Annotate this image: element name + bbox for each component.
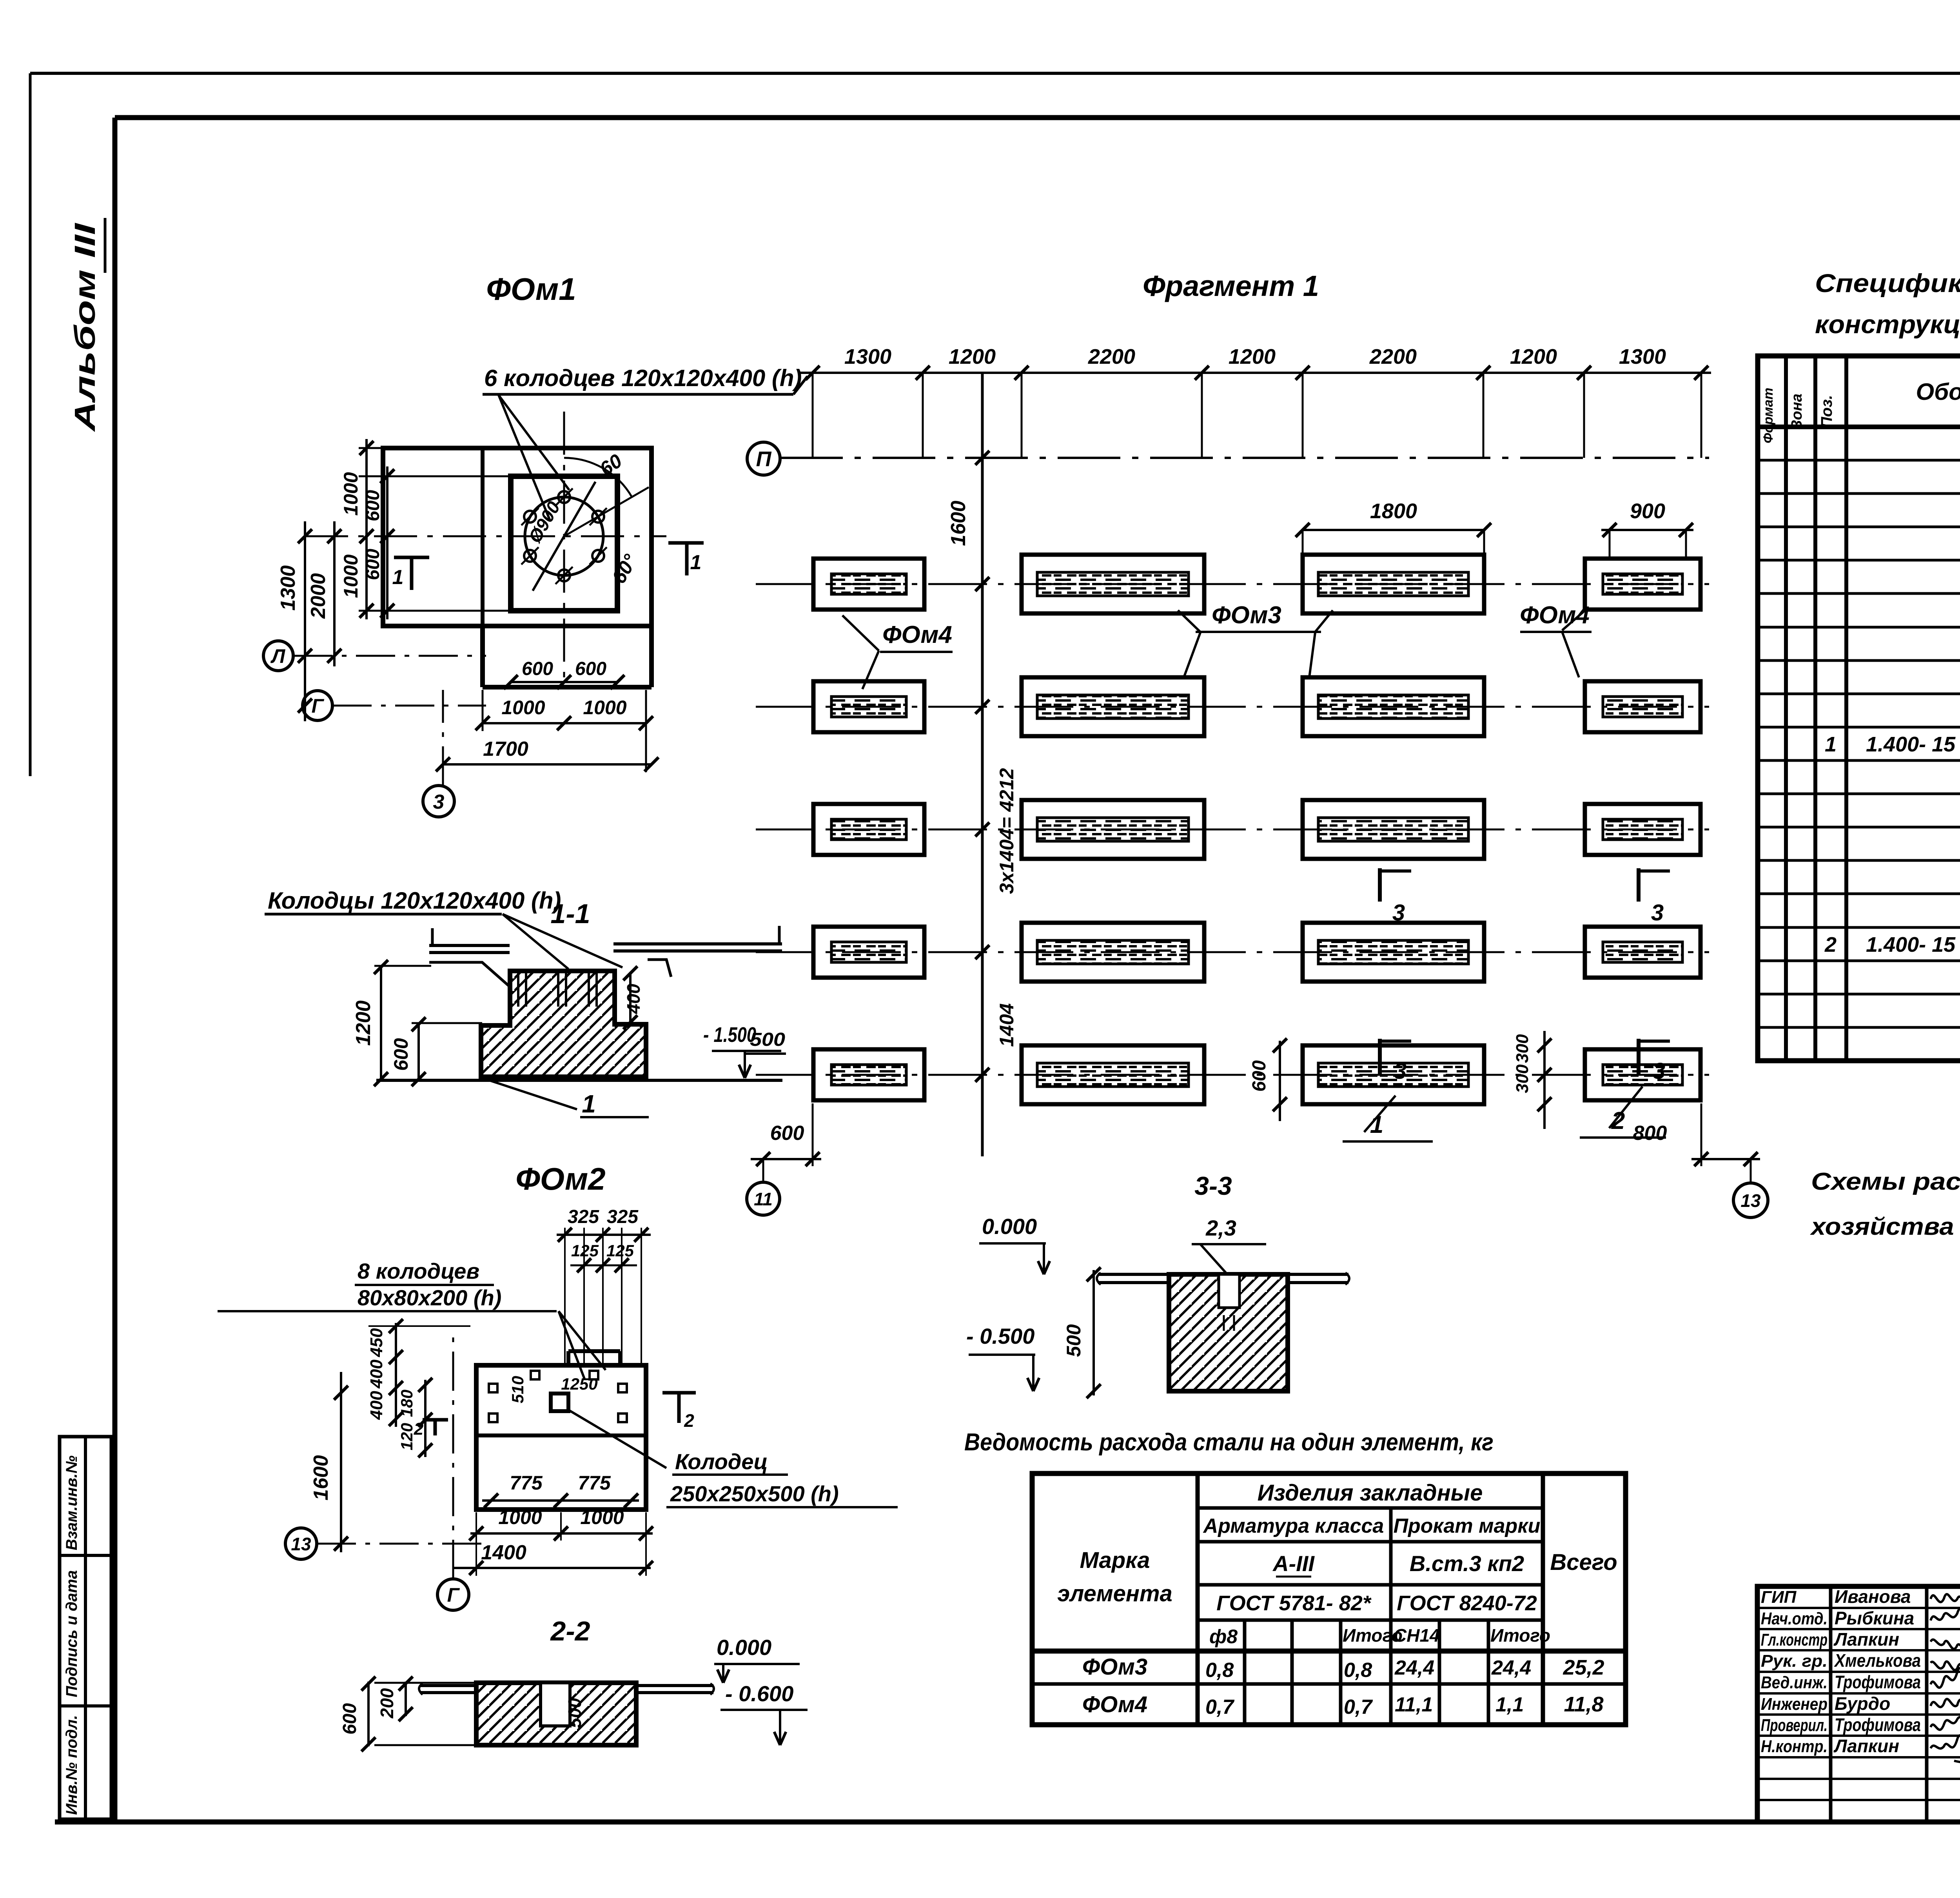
svg-text:Спецификация элементов монол: Спецификация элементов монолитных	[1815, 269, 1960, 298]
svg-text:1200: 1200	[949, 345, 996, 368]
section 2-2 dims	[367, 1682, 370, 1746]
svg-text:2-2: 2-2	[550, 1616, 590, 1646]
foundation element row 2 col 1	[813, 681, 924, 732]
section 1-1 leader 1	[482, 1078, 577, 1109]
svg-text:Ведомость расхода стали на: Ведомость расхода стали на один элемент,…	[964, 1429, 1494, 1456]
FOm1 extension lines	[359, 447, 392, 449]
section 3-3 foundation	[1169, 1274, 1288, 1391]
svg-text:Бурдо: Бурдо	[1835, 1693, 1890, 1714]
svg-text:Фрагмент 1: Фрагмент 1	[1143, 270, 1319, 302]
svg-text:Марка: Марка	[1080, 1548, 1150, 1573]
steel table header lines	[1198, 1506, 1543, 1510]
foundation element row 4 col 3	[1303, 923, 1484, 982]
svg-text:Иванова: Иванова	[1835, 1586, 1911, 1607]
svg-text:ФОм3: ФОм3	[1082, 1654, 1147, 1680]
svg-text:325: 325	[607, 1207, 639, 1227]
svg-text:Взам.инв.№: Взам.инв.№	[63, 1455, 80, 1550]
section 2-2 right slab	[636, 1684, 713, 1687]
foundation element row 2 col 3	[1303, 677, 1484, 736]
svg-text:ГОСТ 5781- 82*: ГОСТ 5781- 82*	[1216, 1591, 1372, 1615]
svg-text:1250: 1250	[561, 1375, 597, 1393]
svg-text:Рук. гр.: Рук. гр.	[1761, 1651, 1828, 1671]
svg-text:180: 180	[397, 1390, 416, 1417]
svg-text:Хмелькова: Хмелькова	[1833, 1650, 1921, 1671]
fragment long vertical axis line	[982, 372, 1156, 373]
svg-text:11,8: 11,8	[1564, 1693, 1603, 1716]
svg-text:Гл.констр: Гл.констр	[1761, 1630, 1828, 1649]
FOm2 central well	[551, 1394, 568, 1411]
section 1-1 ground line	[376, 1079, 782, 1082]
svg-text:ФОм3: ФОм3	[1212, 602, 1281, 629]
axis 13 circle FOm2	[285, 1528, 317, 1559]
svg-text:А-III: А-III	[1272, 1551, 1315, 1576]
svg-text:ФОм1: ФОм1	[486, 272, 576, 307]
svg-text:1: 1	[582, 1090, 596, 1118]
svg-text:1000: 1000	[340, 472, 362, 515]
FOm2 left dims 450 400 400	[395, 1323, 397, 1427]
foundation row 2 centerline	[756, 706, 1709, 708]
FOm2 left dims 180 120	[424, 1380, 426, 1457]
svg-text:13: 13	[1740, 1190, 1761, 1211]
FOm2 section mark 2 left	[423, 1418, 448, 1422]
svg-text:Нач.отд.: Нач.отд.	[1761, 1609, 1828, 1628]
FOm1 left dimension lines	[304, 521, 306, 721]
svg-text:ф8: ф8	[1209, 1626, 1238, 1648]
FOm2 top protrusion	[566, 1351, 570, 1365]
svg-text:1: 1	[690, 551, 702, 574]
svg-text:3: 3	[1394, 1058, 1406, 1084]
svg-text:775: 775	[510, 1472, 543, 1494]
svg-text:600: 600	[770, 1122, 804, 1145]
svg-text:2: 2	[684, 1410, 694, 1431]
svg-text:1300: 1300	[277, 565, 299, 611]
svg-text:1.400- 15: 1.400- 15	[1866, 933, 1956, 956]
svg-text:325: 325	[568, 1207, 599, 1227]
FOm1 leader lines	[499, 395, 569, 490]
foundation element row 1 col 2	[1022, 555, 1204, 613]
FOm1 angle arc	[564, 458, 632, 497]
svg-text:Зона: Зона	[1789, 394, 1805, 430]
dim 600 col3 row5	[1279, 1041, 1281, 1121]
foundation element row 3 col 3	[1303, 800, 1484, 859]
FOm1 six wells	[558, 491, 570, 503]
svg-text:Инв.№ подл.: Инв.№ подл.	[63, 1715, 80, 1815]
steel table vertical lines	[1196, 1473, 1200, 1725]
foundation element row 4 col 2	[1022, 923, 1204, 982]
foundation element row 3 col 4	[1585, 804, 1700, 855]
FOm1 diameter line	[533, 482, 595, 591]
svg-text:Колодец: Колодец	[675, 1449, 768, 1474]
svg-text:1000: 1000	[583, 697, 626, 719]
svg-text:500: 500	[750, 1029, 785, 1050]
foundation element row 4 col 4	[1585, 927, 1700, 978]
FOm2 dim 1600	[340, 1372, 342, 1552]
svg-text:Прокат марки: Прокат марки	[1394, 1515, 1541, 1537]
svg-text:хозяйства см. листы 18,: хозяйства см. листы 18,19	[1810, 1213, 1960, 1240]
svg-text:П: П	[756, 447, 772, 471]
svg-text:1: 1	[392, 566, 404, 589]
svg-text:Г: Г	[312, 695, 325, 717]
svg-text:300: 300	[1513, 1034, 1532, 1063]
svg-text:1: 1	[1825, 733, 1837, 756]
svg-text:- 0.500: - 0.500	[966, 1324, 1034, 1348]
foundation element row 4 col 1	[813, 927, 924, 978]
axis G circle FOm2	[437, 1579, 469, 1610]
svg-text:2000: 2000	[307, 573, 330, 619]
section 3-3 dim 500	[1093, 1270, 1095, 1395]
inner thick frame	[115, 115, 1960, 120]
section 2-2 left slab	[420, 1684, 476, 1687]
axis 3 circle	[423, 786, 454, 817]
svg-text:600: 600	[1249, 1060, 1270, 1092]
svg-text:500: 500	[1063, 1324, 1085, 1357]
svg-text:Инженер: Инженер	[1761, 1695, 1828, 1714]
foundation element row 3 col 2	[1022, 800, 1204, 859]
svg-text:1,1: 1,1	[1495, 1693, 1524, 1716]
FOm2 T2 section mark	[662, 1391, 696, 1395]
FOm2 plan centerlines	[452, 1333, 454, 1579]
svg-text:0.000: 0.000	[982, 1214, 1037, 1239]
section 1-1 left floor slab	[429, 944, 510, 947]
svg-text:Н.контр.: Н.контр.	[1761, 1737, 1828, 1756]
foundation element row 2 col 2	[1022, 677, 1204, 736]
leader 1 row5	[1364, 1096, 1396, 1132]
svg-text:0.000: 0.000	[717, 1635, 771, 1660]
foundation row 5 centerline	[756, 1074, 1709, 1076]
svg-text:2: 2	[414, 1419, 424, 1439]
svg-text:- 0.600: - 0.600	[725, 1681, 793, 1706]
svg-text:1300: 1300	[844, 345, 891, 368]
svg-text:Итого: Итого	[1490, 1625, 1550, 1646]
foundation element row 1 col 3	[1303, 555, 1484, 613]
FOm2 plan outer rect	[476, 1365, 646, 1510]
svg-text:3: 3	[1651, 900, 1664, 925]
section 1-1 dim 1200	[380, 966, 382, 1080]
dim 900 over row1 col4	[1601, 529, 1693, 531]
outer thin frame left line	[29, 73, 32, 776]
svg-text:Арматура класса: Арматура класса	[1203, 1515, 1384, 1537]
svg-text:ГИП: ГИП	[1761, 1588, 1797, 1607]
svg-text:1000: 1000	[501, 697, 545, 719]
svg-text:3х1404= 4212: 3х1404= 4212	[996, 768, 1018, 894]
svg-text:Вед.инж.: Вед.инж.	[1761, 1673, 1828, 1692]
svg-text:600: 600	[575, 659, 606, 679]
svg-text:Лапкин: Лапкин	[1833, 1736, 1899, 1756]
svg-text:24,4: 24,4	[1394, 1657, 1434, 1679]
svg-text:400: 400	[367, 1359, 386, 1389]
foundation element row 5 col 2	[1022, 1045, 1204, 1104]
foundation element row 1 col 4	[1585, 559, 1700, 610]
svg-text:1200: 1200	[352, 1000, 375, 1046]
svg-text:Г: Г	[447, 1584, 460, 1606]
FOm2 well leader text	[569, 1410, 666, 1468]
svg-text:1800: 1800	[1370, 499, 1417, 523]
specification header row	[1758, 425, 1960, 429]
svg-text:2: 2	[1824, 933, 1837, 956]
foundation row 1 centerline	[756, 583, 1709, 585]
svg-text:СН14: СН14	[1394, 1625, 1440, 1646]
svg-text:В.ст.3 кп2: В.ст.3 кп2	[1410, 1551, 1524, 1576]
FOm1 element square	[511, 476, 617, 611]
svg-text:1000: 1000	[340, 554, 362, 598]
svg-text:200: 200	[377, 1688, 397, 1718]
svg-text:3-3: 3-3	[1194, 1171, 1232, 1200]
foundation element row 5 col 1	[813, 1049, 924, 1100]
sheet bottom line	[55, 1820, 1960, 1825]
foundation element row 5 col 4	[1585, 1049, 1700, 1100]
specification table frame	[1758, 356, 1960, 1061]
svg-text:Трофимова: Трофимова	[1835, 1672, 1921, 1692]
svg-text:конструкций фундаментов ФОм: конструкций фундаментов ФОм 1 ÷ ФОм 5	[1815, 310, 1960, 339]
svg-text:600: 600	[390, 1038, 412, 1071]
svg-text:6 колодцев 120х120х400 (h): 6 колодцев 120х120х400 (h)	[484, 365, 802, 391]
svg-text:1600: 1600	[310, 1455, 332, 1501]
svg-text:900: 900	[1630, 499, 1665, 523]
axis G circle	[303, 691, 332, 720]
svg-text:2200: 2200	[1369, 345, 1417, 368]
svg-text:11,1: 11,1	[1395, 1693, 1433, 1716]
svg-text:25,2: 25,2	[1563, 1656, 1604, 1679]
svg-text:775: 775	[578, 1472, 611, 1494]
svg-text:1600: 1600	[947, 501, 970, 546]
FOm2 plan wells	[531, 1371, 539, 1379]
svg-text:Трофимова: Трофимова	[1835, 1715, 1921, 1735]
svg-text:Подпись и дата: Подпись и дата	[63, 1570, 80, 1697]
svg-text:Схемы расположения элементо: Схемы расположения элементов подземного	[1811, 1168, 1960, 1195]
foundation element row 2 col 4	[1585, 681, 1700, 732]
FOm1 bottom dim 1700	[443, 763, 652, 766]
section 1-1 dim 400 in notch	[629, 972, 632, 1023]
svg-text:600: 600	[339, 1703, 360, 1735]
svg-text:0,8: 0,8	[1205, 1659, 1234, 1682]
svg-text:Всего: Всего	[1550, 1550, 1617, 1575]
svg-text:Альбом III: Альбом III	[69, 223, 101, 432]
axis P circle	[747, 442, 780, 475]
svg-text:1200: 1200	[1229, 345, 1276, 368]
svg-text:1000: 1000	[580, 1506, 624, 1528]
FOm1 internal step line	[481, 448, 485, 626]
svg-text:1000: 1000	[498, 1506, 542, 1528]
svg-text:1200: 1200	[1510, 345, 1557, 368]
svg-text:0,7: 0,7	[1344, 1696, 1373, 1718]
svg-text:ФОм4: ФОм4	[1082, 1692, 1147, 1717]
section mark T1 right	[668, 541, 704, 545]
left attribute table	[60, 1437, 111, 1819]
section 1-1 right floor slab	[613, 942, 782, 945]
svg-text:600: 600	[363, 490, 383, 521]
svg-text:1300: 1300	[1619, 345, 1666, 368]
section 1-1 foundation body	[481, 971, 646, 1077]
FOm1 wells circle	[525, 497, 603, 575]
svg-text:0,7: 0,7	[1205, 1696, 1234, 1718]
FOm1 bottom dims 1000 1000	[483, 722, 646, 724]
section marks 3-3 lower pair	[1378, 1039, 1382, 1074]
svg-text:2,3: 2,3	[1205, 1216, 1236, 1240]
svg-text:600: 600	[522, 659, 553, 679]
axis L circle	[263, 641, 293, 671]
title block name rows	[1757, 1607, 1960, 1609]
svg-text:400: 400	[367, 1391, 386, 1420]
svg-text:Обозначение: Обозначение	[1916, 379, 1960, 405]
svg-text:450: 450	[367, 1328, 386, 1357]
svg-text:600: 600	[363, 549, 383, 580]
outer thin frame top line	[30, 72, 1960, 75]
dim 1800 over row1 col3	[1303, 529, 1484, 531]
axis 13 fragment	[1750, 1159, 1752, 1183]
leader 2 row5	[1609, 1087, 1642, 1128]
svg-text:13: 13	[291, 1534, 311, 1554]
specification row lines	[1758, 459, 1960, 462]
svg-text:1.400- 15: 1.400- 15	[1866, 733, 1956, 756]
svg-text:1404: 1404	[996, 1003, 1018, 1047]
svg-text:2: 2	[1611, 1107, 1625, 1134]
svg-text:120: 120	[397, 1423, 416, 1450]
foundation element row 1 col 1	[813, 559, 924, 610]
svg-text:3: 3	[1653, 1058, 1665, 1084]
svg-text:Рыбкина: Рыбкина	[1835, 1608, 1914, 1628]
foundation row 3 centerline	[756, 829, 1709, 831]
FOm1 outer pit rectangle	[383, 448, 652, 626]
svg-text:500: 500	[564, 1698, 585, 1728]
FOm1 lower extension	[480, 626, 485, 687]
svg-text:- 1.500: - 1.500	[703, 1023, 756, 1047]
axis 11	[762, 1159, 764, 1182]
section 1-1 dim 600	[417, 1023, 420, 1080]
svg-text:80х80х200 (h): 80х80х200 (h)	[358, 1285, 501, 1310]
svg-text:ГОСТ 8240-72: ГОСТ 8240-72	[1397, 1591, 1537, 1615]
svg-text:Поз.: Поз.	[1818, 395, 1835, 428]
FOm1 bottom dims 600 600	[511, 681, 617, 683]
svg-text:510: 510	[508, 1376, 527, 1403]
svg-text:2200: 2200	[1088, 345, 1135, 368]
svg-text:1400: 1400	[481, 1541, 526, 1564]
svg-text:ФОм4: ФОм4	[882, 621, 952, 648]
svg-text:Л: Л	[270, 645, 286, 667]
svg-text:24,4: 24,4	[1491, 1657, 1531, 1679]
svg-text:800: 800	[1633, 1122, 1667, 1145]
svg-text:300: 300	[1513, 1064, 1532, 1093]
steel table outer	[1032, 1473, 1626, 1725]
svg-text:400: 400	[623, 983, 644, 1014]
foundation element row 5 col 3	[1303, 1045, 1484, 1104]
svg-text:1: 1	[1370, 1111, 1383, 1138]
section 1-1 wells in body	[517, 972, 519, 1007]
svg-text:Проверил.: Проверил.	[1761, 1716, 1828, 1735]
fragment top dimension line	[800, 372, 1711, 374]
svg-text:8 колодцев: 8 колодцев	[358, 1259, 479, 1283]
FOm1 centerlines	[305, 535, 666, 537]
svg-text:125: 125	[606, 1241, 634, 1260]
svg-text:Изделия закладные: Изделия закладные	[1258, 1480, 1483, 1506]
svg-text:3: 3	[1392, 900, 1405, 925]
svg-text:элемента: элемента	[1057, 1581, 1172, 1606]
section 3-3 right slab	[1288, 1273, 1348, 1276]
svg-text:3: 3	[433, 791, 445, 813]
title block name columns	[1829, 1586, 1833, 1822]
svg-text:ФОм2: ФОм2	[515, 1161, 605, 1196]
section marks 3-3 upper pair	[1378, 868, 1382, 902]
svg-text:Колодцы 120х120х400 (h): Колодцы 120х120х400 (h)	[268, 887, 561, 914]
title block outer	[1757, 1586, 1960, 1822]
foundation element row 3 col 1	[813, 804, 924, 855]
svg-text:11: 11	[754, 1189, 773, 1209]
foundation row 4 centerline	[756, 951, 1709, 953]
svg-text:0,8: 0,8	[1344, 1659, 1372, 1682]
section 2-2 foundation	[476, 1683, 636, 1745]
svg-text:250х250х500 (h): 250х250х500 (h)	[670, 1481, 839, 1506]
svg-text:1700: 1700	[483, 738, 528, 760]
svg-text:125: 125	[571, 1241, 599, 1260]
section mark 1 left	[394, 556, 429, 559]
dims 300 300 col4 row5	[1543, 1031, 1546, 1129]
svg-text:Формат: Формат	[1761, 388, 1776, 443]
svg-text:Лапкин: Лапкин	[1833, 1629, 1899, 1649]
axis P line	[780, 457, 1709, 459]
section 3-3 left slab	[1098, 1273, 1169, 1276]
